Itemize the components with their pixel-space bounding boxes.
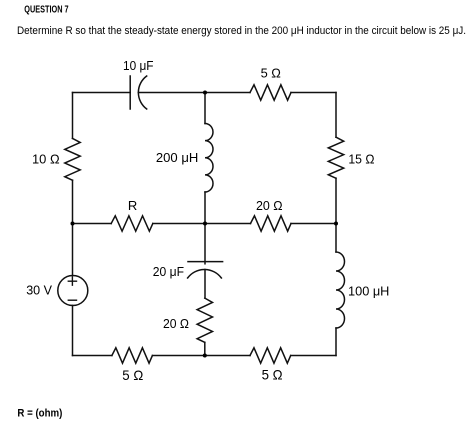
svg-text:5 Ω: 5 Ω xyxy=(261,65,282,80)
svg-text:10 Ω: 10 Ω xyxy=(32,152,60,167)
svg-text:Determine R so that the steady: Determine R so that the steady-state ene… xyxy=(17,25,466,37)
svg-text:20 Ω: 20 Ω xyxy=(163,316,189,331)
svg-text:15 Ω: 15 Ω xyxy=(348,152,374,167)
svg-text:R = (ohm): R = (ohm) xyxy=(17,408,62,420)
svg-text:R: R xyxy=(128,198,137,213)
svg-text:5 Ω: 5 Ω xyxy=(262,366,283,382)
svg-text:5 Ω: 5 Ω xyxy=(122,367,143,383)
svg-text:20 μF: 20 μF xyxy=(153,264,184,279)
svg-text:30 V: 30 V xyxy=(26,283,52,298)
svg-text:200 μH: 200 μH xyxy=(156,150,198,165)
svg-text:QUESTION 7: QUESTION 7 xyxy=(24,5,69,16)
svg-text:10 μF: 10 μF xyxy=(123,58,154,73)
svg-text:20 Ω: 20 Ω xyxy=(256,198,283,213)
svg-text:100 μH: 100 μH xyxy=(348,283,389,298)
